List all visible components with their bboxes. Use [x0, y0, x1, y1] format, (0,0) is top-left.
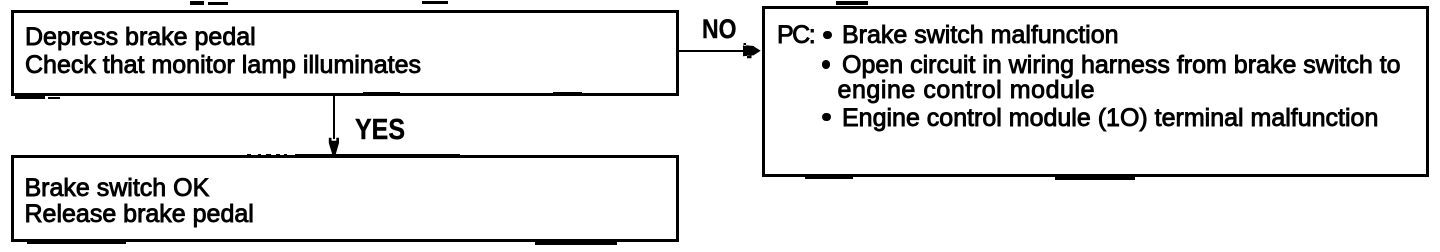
- bullet 3 in box B3: [822, 113, 831, 122]
- scan artifact thick band on box B2 top border: [295, 154, 460, 158]
- line 1 text in box B3: [842, 23, 1119, 48]
- text in box B1: [25, 23, 421, 80]
- label NO: [702, 16, 736, 43]
- flowchart box B2 "Brake switch OK / Release brake pedal": [11, 155, 679, 242]
- line 2 text in box B3: [842, 53, 1401, 78]
- arrowhead YES (points down into box B2): [327, 135, 341, 156]
- wire: YES arrow shaft: [333, 95, 335, 139]
- scan artifact dashes below box B2 bottom-left: [27, 242, 126, 245]
- scan artifact ticks above box B1 top border: [190, 1, 204, 5]
- line 3 text in box B3 (wrap continuation): [838, 78, 1096, 103]
- scan artifact thick segment on box B1 bottom border (right): [553, 92, 582, 95]
- scan artifact tick above box B1 top border (mid): [422, 1, 448, 4]
- label YES: [355, 116, 405, 145]
- flowchart box B1 "Depress brake pedal / Check that monitor lamp illuminates": [11, 10, 679, 96]
- scan artifact dashes below box B3 bottom border: [805, 176, 853, 179]
- wire: NO arrow shaft: [679, 50, 745, 52]
- arrowhead NO (points right into box B3): [742, 42, 762, 59]
- flowchart box B3 possible-causes list: [762, 6, 1429, 177]
- line 4 text in box B3: [842, 106, 1378, 131]
- bullet 2 in box B3: [822, 60, 831, 69]
- label PC: in box B3: [777, 23, 814, 48]
- bullet 1 in box B3: [823, 31, 832, 40]
- scan artifact tick above box B3 top border: [836, 1, 868, 5]
- scan artifact dashes below box B1 bottom-left: [15, 96, 45, 99]
- text in box B2: [25, 175, 254, 227]
- scan artifact ticks above box B2 top border: [247, 154, 251, 157]
- scan artifact thick segment on box B1 bottom border (left): [363, 92, 400, 95]
